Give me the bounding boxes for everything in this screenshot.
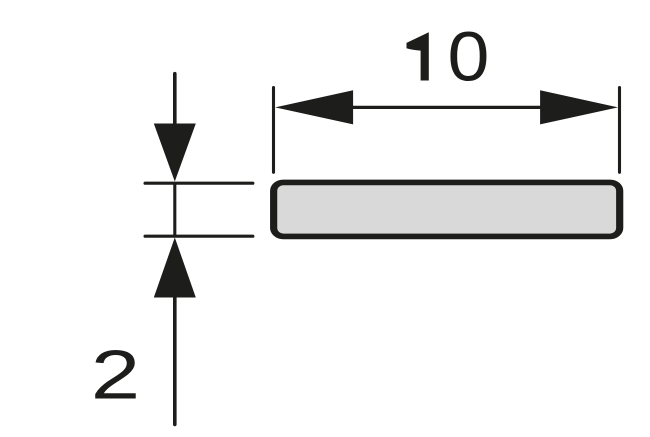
svg-text:2: 2 — [91, 335, 140, 413]
svg-text:0: 0 — [447, 18, 489, 96]
